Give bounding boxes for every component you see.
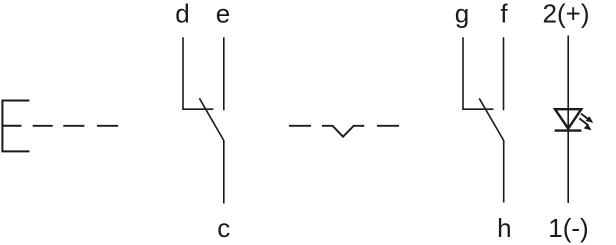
- LED anode wire (pin 2): [567, 36, 569, 131]
- LED light emission arrow 2: [579, 118, 591, 130]
- mechanical link dashed line (left), segment 3: [97, 125, 118, 127]
- mechanical link dashed line (middle), segment 2: [377, 125, 399, 127]
- actuator plunger (E-shaped operator symbol): [2, 101, 29, 152]
- svg-text:c: c: [217, 213, 230, 243]
- svg-text:1(-): 1(-): [548, 213, 588, 243]
- LED triangle (anode): [555, 109, 581, 128]
- switch SW1 terminal e wire (NO contact): [223, 37, 225, 110]
- switch SW2 terminal g wire: [462, 37, 464, 109]
- svg-text:f: f: [500, 0, 508, 29]
- LED cathode wire (pin 1): [567, 131, 569, 203]
- mechanical link dashed line (left), segment 2: [63, 125, 84, 127]
- svg-text:2(+): 2(+): [543, 0, 590, 29]
- switch SW1 fixed contact bar (NC, to terminal d): [183, 108, 213, 111]
- mechanical link dashed line (middle), segment 1: [289, 125, 311, 127]
- svg-text:h: h: [497, 213, 511, 243]
- switch SW1 movable lever: [199, 98, 223, 140]
- switch SW2 terminal h wire (common): [503, 140, 505, 203]
- svg-text:e: e: [216, 0, 230, 29]
- switch SW2 fixed contact bar (NC, to terminal g): [463, 108, 494, 111]
- LED cathode bar: [555, 129, 582, 131]
- switch SW1 terminal d wire: [182, 37, 184, 109]
- mechanical link detent (V notch) segment: [322, 126, 364, 137]
- LED light emission arrow 1: [581, 114, 593, 123]
- switch SW2 movable lever: [479, 98, 504, 140]
- svg-text:d: d: [175, 0, 189, 29]
- mechanical link dashed line (left), segment 1: [33, 125, 53, 127]
- switch SW2 terminal f wire (NO contact): [503, 37, 505, 110]
- svg-text:g: g: [455, 0, 469, 29]
- switch SW1 terminal c wire (common): [223, 140, 225, 204]
